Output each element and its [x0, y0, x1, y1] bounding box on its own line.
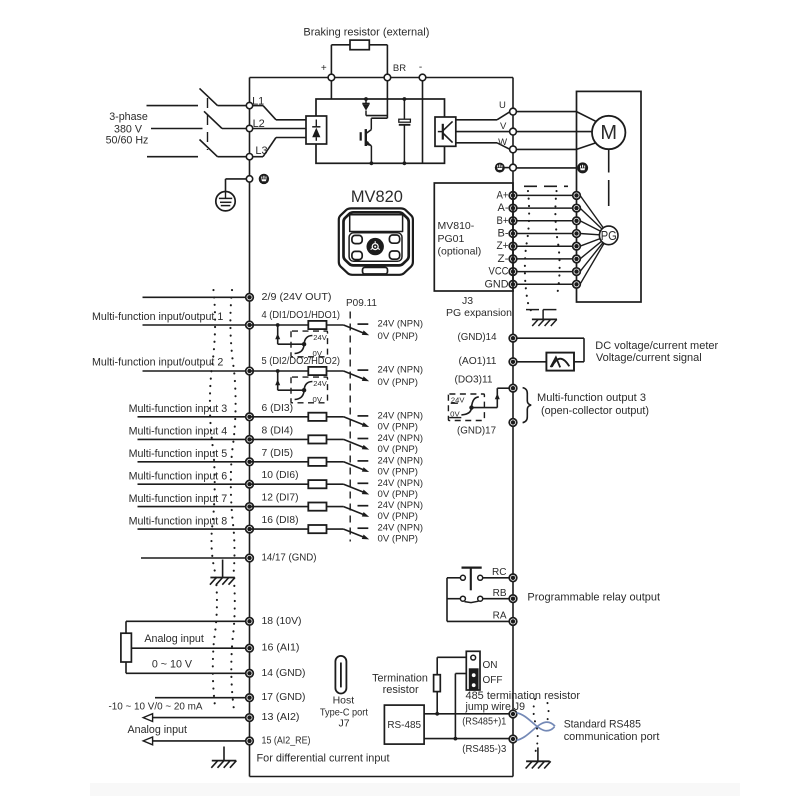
resistor braking (external)	[350, 40, 369, 50]
svg-text:14 (GND): 14 (GND)	[262, 668, 306, 679]
svg-text:PG: PG	[601, 229, 617, 243]
wire phase input at y=128.5	[151, 128, 203, 130]
motor enclosure box	[577, 91, 642, 302]
terminal 15 (AI2_RE)	[246, 737, 254, 745]
wire terminal to resistor DI6	[250, 483, 309, 485]
wire - node drop through box	[422, 81, 424, 164]
svg-text:0 ~ 10 V: 0 ~ 10 V	[152, 658, 193, 670]
node - terminal	[419, 74, 426, 81]
converter main box	[316, 99, 445, 163]
svg-text:0V (PNP): 0V (PNP)	[378, 421, 419, 431]
svg-text:W: W	[498, 137, 507, 148]
resistor 485 termination	[434, 675, 441, 692]
wire terminal to resistor DI1	[250, 324, 309, 326]
diode rectifier symbol	[312, 120, 320, 141]
wire L3 to rectifier	[253, 156, 263, 158]
terminal GND motor side	[573, 281, 581, 289]
wire 17 GND feed	[155, 697, 246, 699]
wire V output	[456, 131, 510, 133]
breaker blade	[200, 88, 218, 105]
wire bottom enclosure edge	[250, 776, 514, 778]
switch HDO1 internal 24V/0V selector	[275, 323, 327, 358]
terminal Z+ motor side	[573, 242, 581, 250]
terminal 5 (DI2/DO2/HDO2)	[246, 367, 254, 375]
svg-text:24V (NPN): 24V (NPN)	[378, 500, 424, 510]
diode braking chopper freewheel	[362, 99, 369, 116]
terminal 2/9 (24V OUT)	[246, 294, 254, 302]
resistor input DI1	[308, 321, 326, 329]
svg-text:Multi-function input 5: Multi-function input 5	[129, 448, 228, 460]
jumper J9 termination block	[466, 651, 480, 690]
wire PG signal Z-	[513, 258, 577, 260]
transistor IGBT inverter symbol	[438, 121, 453, 142]
wire resistor DI6 to switch	[327, 483, 344, 485]
switch DO3 open collector selector	[448, 388, 509, 420]
wire resistor DI2 to switch	[327, 370, 344, 372]
terminal B+ motor side	[573, 217, 581, 225]
svg-text:3-phase: 3-phase	[109, 111, 148, 123]
wire jumper top to resistor	[437, 656, 466, 658]
wire terminal to resistor DI4	[250, 438, 309, 440]
svg-text:V: V	[500, 121, 507, 132]
wire P09.11 dashed boundary	[349, 312, 351, 542]
wire terminal to resistor DI7	[250, 506, 309, 508]
svg-text:(GND)14: (GND)14	[458, 332, 497, 343]
wire blade to terminal	[218, 105, 247, 107]
svg-text:RB: RB	[493, 588, 507, 599]
wire jumper mid to RS485-	[455, 673, 466, 675]
switch DI2 blade to 0V	[344, 371, 367, 380]
module RS-485 box	[384, 705, 424, 744]
svg-text:Analog input: Analog input	[144, 633, 203, 645]
encoder PG circle	[599, 226, 618, 245]
terminal GND drive side	[509, 281, 517, 289]
resistor input DI3	[308, 413, 326, 421]
svg-text:For differential current input: For differential current input	[257, 753, 390, 765]
wire PG signal A+	[513, 194, 577, 196]
wire RS485- to terminal	[424, 738, 509, 740]
meter voltage/current	[546, 353, 574, 371]
wire PE stub	[505, 167, 510, 169]
terminal (RS485-)3	[509, 735, 517, 743]
svg-text:RS-485: RS-485	[387, 719, 421, 731]
svg-text:0V: 0V	[313, 395, 323, 404]
svg-text:MV810-: MV810-	[438, 220, 475, 232]
terminal B+ drive side	[509, 217, 517, 225]
wire Multi-function input/output 1 feed	[143, 324, 246, 326]
svg-text:24V (NPN): 24V (NPN)	[378, 478, 424, 488]
terminal RB	[509, 595, 517, 603]
terminal 13 (AI2)	[246, 714, 254, 722]
wire Multi-function input 4 feed	[138, 438, 246, 440]
wire Multi-function input 8 feed	[138, 528, 246, 530]
shield dotted columns PG cable	[525, 191, 534, 314]
wire meter loop	[517, 337, 584, 339]
svg-text:16 (DI8): 16 (DI8)	[262, 515, 299, 526]
wire BR drop to chopper	[386, 81, 388, 118]
terminal 17 (GND)	[246, 694, 254, 702]
terminal 16 (AI1)	[246, 644, 254, 652]
svg-text:0V (PNP): 0V (PNP)	[378, 331, 419, 341]
svg-text:Multi-function input 6: Multi-function input 6	[129, 471, 228, 483]
breaker blade	[200, 140, 218, 157]
svg-text:4 (DI1/DO1/HDO1): 4 (DI1/DO1/HDO1)	[262, 310, 341, 321]
svg-text:(open-collector output): (open-collector output)	[541, 405, 649, 417]
svg-text:17 (GND): 17 (GND)	[262, 692, 306, 703]
svg-text:-: -	[419, 62, 422, 73]
faint bottom watermark	[90, 783, 740, 796]
wire GND feed analog	[126, 672, 246, 674]
switch DI7 blade to 0V	[344, 507, 367, 516]
transistor IGBT braking chopper	[361, 118, 372, 163]
resistor input DI8	[308, 525, 326, 533]
switch DI1 blade to 0V	[344, 325, 367, 334]
wire AI1 feed	[131, 647, 245, 649]
protective earth disc at PE input	[259, 174, 269, 184]
wire AI2 feed with arrow	[152, 717, 246, 719]
node BR terminal	[384, 74, 391, 81]
switch DI6 24V contact dash	[358, 482, 369, 484]
terminal VCC drive side	[509, 268, 517, 276]
wire phase input at y=105.6	[147, 105, 199, 107]
ground below 14/17 GND	[222, 560, 224, 578]
svg-text:(AO1)11: (AO1)11	[459, 356, 497, 367]
wire Multi-function input/output 2 feed	[143, 370, 246, 372]
svg-text:ON: ON	[483, 660, 498, 671]
wire L1 to rectifier	[253, 105, 263, 107]
svg-text:5 (DI2/DO2/HDO2): 5 (DI2/DO2/HDO2)	[262, 356, 341, 367]
switch DI3 24V contact dash	[358, 415, 369, 417]
wire top DC bus (+ BR - rail)	[250, 77, 514, 79]
wire W inside motor box	[516, 148, 576, 150]
svg-text:13 (AI2): 13 (AI2)	[262, 712, 300, 723]
switch DI1 24V contact dash	[358, 323, 369, 325]
terminal Z+ drive side	[509, 242, 517, 250]
svg-text:6 (DI3): 6 (DI3)	[262, 403, 294, 414]
breaker blade	[204, 111, 222, 128]
terminal (GND)17	[509, 419, 517, 427]
svg-text:485 termination resistor: 485 termination resistor	[466, 690, 581, 702]
terminal U	[510, 108, 517, 115]
wire Multi-function input 5 feed	[138, 461, 246, 463]
wire PG signal B+	[513, 220, 577, 222]
terminal PE output	[510, 164, 517, 171]
wire Multi-function input 3 feed	[138, 416, 246, 418]
svg-text:24V (NPN): 24V (NPN)	[378, 433, 424, 443]
wire V inside motor box	[516, 131, 592, 133]
wire terminal to resistor DI8	[250, 528, 309, 530]
terminal Z- motor side	[573, 255, 581, 263]
svg-text:2/9 (24V OUT): 2/9 (24V OUT)	[262, 292, 332, 303]
terminal RA	[509, 618, 517, 626]
shield dotted columns inputs cable	[210, 290, 217, 710]
protective earth disc left of PE output	[495, 163, 505, 173]
switch DI4 blade to 0V	[344, 439, 367, 448]
svg-text:7 (DI5): 7 (DI5)	[262, 448, 294, 459]
svg-text:0V (PNP): 0V (PNP)	[378, 444, 419, 454]
svg-text:PG01: PG01	[438, 233, 465, 245]
terminal (GND)14	[509, 334, 517, 342]
svg-text:8 (DI4): 8 (DI4)	[262, 425, 294, 436]
switch DI7 24V contact dash	[358, 505, 369, 507]
svg-text:Standard RS485: Standard RS485	[564, 719, 641, 731]
wire resistor DI4 to switch	[327, 438, 344, 440]
svg-text:Multi-function input 3: Multi-function input 3	[129, 403, 228, 415]
wire Multi-function input 7 feed	[138, 506, 246, 508]
switch DI8 24V contact dash	[358, 527, 369, 529]
wire 24V OUT feed	[143, 296, 246, 298]
terminal A- drive side	[509, 204, 517, 212]
terminal 6 (DI3)	[246, 413, 254, 421]
wire + node drop into box	[330, 81, 332, 99]
terminal B- drive side	[509, 230, 517, 238]
node junction chopper emitter to bus	[370, 161, 374, 165]
node junction top of chopper diode	[364, 97, 368, 101]
wire resistor DI7 to switch	[327, 506, 344, 508]
svg-text:(RS485-)3: (RS485-)3	[462, 744, 506, 755]
svg-text:PG expansion: PG expansion	[446, 307, 512, 319]
resistor input DI7	[308, 503, 326, 511]
node junction capacitor top	[403, 97, 407, 101]
svg-text:24V: 24V	[313, 333, 327, 342]
svg-text:RA: RA	[493, 610, 507, 621]
wire terminal to resistor DI2	[250, 370, 309, 372]
wire left terminal rail	[249, 78, 251, 777]
svg-text:MV820: MV820	[351, 187, 403, 206]
svg-text:50/60 Hz: 50/60 Hz	[106, 135, 149, 147]
svg-text:(optional): (optional)	[438, 246, 482, 258]
svg-text:VCC: VCC	[489, 266, 509, 278]
svg-text:B+: B+	[497, 215, 509, 227]
terminal L2	[246, 125, 252, 131]
svg-text:(DO3)11: (DO3)11	[455, 375, 493, 386]
terminal L1	[246, 102, 252, 108]
ground below analog inputs	[223, 747, 225, 761]
svg-text:Braking resistor (external): Braking resistor (external)	[303, 27, 429, 39]
svg-text:Analog input: Analog input	[128, 724, 187, 736]
svg-text:16 (AI1): 16 (AI1)	[262, 643, 300, 654]
terminal B- motor side	[573, 230, 581, 238]
svg-text:(RS485+)1: (RS485+)1	[462, 716, 506, 727]
svg-text:Multi-function input/output 1: Multi-function input/output 1	[92, 311, 223, 323]
resistor input DI2	[308, 367, 326, 375]
wire resistor DI8 to switch	[327, 528, 344, 530]
svg-text:DC voltage/current meter: DC voltage/current meter	[595, 340, 718, 352]
terminal (AO1)11	[509, 358, 517, 366]
svg-text:24V (NPN): 24V (NPN)	[378, 410, 424, 420]
wire GND feed 14/17	[141, 557, 246, 559]
shield dashed line above PG cable	[524, 185, 568, 187]
node + terminal	[328, 74, 335, 81]
svg-text:+: +	[321, 63, 327, 74]
svg-text:0V (PNP): 0V (PNP)	[378, 489, 419, 499]
switch DI8 blade to 0V	[344, 529, 367, 538]
svg-text:L3: L3	[255, 145, 267, 157]
svg-text:0V (PNP): 0V (PNP)	[378, 466, 419, 476]
wire PG signal GND	[513, 283, 577, 285]
svg-text:15 (AI2_RE): 15 (AI2_RE)	[262, 735, 311, 746]
svg-text:B-: B-	[498, 228, 509, 240]
switch DI2 24V contact dash	[358, 369, 369, 371]
terminal V	[510, 128, 517, 135]
terminal 10 (DI6)	[246, 480, 254, 488]
wire AI2 RE feed with arrow	[152, 740, 246, 742]
svg-text:J7: J7	[338, 717, 349, 729]
svg-text:Programmable relay output: Programmable relay output	[527, 591, 660, 603]
wire RS485+ to terminal	[424, 713, 509, 715]
svg-text:24V (NPN): 24V (NPN)	[378, 523, 424, 533]
terminal 16 (DI8)	[246, 525, 254, 533]
svg-text:Multi-function input/output 2: Multi-function input/output 2	[92, 357, 223, 369]
svg-text:GND: GND	[485, 278, 509, 290]
wire AO1 to meter	[517, 361, 547, 363]
svg-text:24V (NPN): 24V (NPN)	[378, 319, 424, 329]
wire Multi-function input 6 feed	[138, 483, 246, 485]
terminal VCC motor side	[573, 268, 581, 276]
terminal A+ drive side	[509, 192, 517, 200]
svg-text:0V (PNP): 0V (PNP)	[378, 534, 419, 544]
svg-text:Termination: Termination	[372, 673, 428, 685]
wire U inside motor box	[516, 111, 576, 113]
svg-text:18 (10V): 18 (10V)	[262, 616, 302, 627]
expansion card MV810-PG01 box	[434, 183, 513, 291]
wire braking resistor loop left	[330, 45, 332, 75]
wire PG signal VCC	[513, 271, 577, 273]
resistor input DI5	[308, 458, 326, 466]
svg-text:communication port: communication port	[564, 731, 660, 743]
terminal PE input	[246, 176, 252, 182]
svg-text:-10 ~ 10 V/0 ~ 20 mA: -10 ~ 10 V/0 ~ 20 mA	[109, 701, 203, 712]
switch HDO2 internal 24V/0V selector	[275, 369, 327, 404]
svg-text:P09.11: P09.11	[346, 298, 377, 309]
switch DI6 blade to 0V	[344, 484, 367, 493]
svg-text:10 (DI6): 10 (DI6)	[262, 470, 299, 481]
node junction capacitor bottom	[403, 161, 407, 165]
wire resistor DI3 to switch	[327, 416, 344, 418]
protective earth disc at motor	[577, 162, 588, 173]
switch DI4 24V contact dash	[358, 438, 369, 440]
svg-text:Multi-function input 4: Multi-function input 4	[129, 426, 228, 438]
terminal 4 (DI1/DO1/HDO1)	[246, 321, 254, 329]
svg-text:24V (NPN): 24V (NPN)	[378, 365, 424, 375]
wire phase input at y=156.7	[147, 156, 198, 158]
breaker linkage dashed	[207, 98, 209, 150]
keypad MV820 graphic	[339, 208, 413, 274]
wire motor shaft to PG dashed	[608, 149, 610, 172]
svg-text:BR: BR	[393, 63, 406, 74]
svg-text:OFF: OFF	[483, 675, 503, 686]
wire PG fan lines to encoder	[580, 195, 609, 235]
rectifier module box	[306, 116, 327, 144]
svg-text:RC: RC	[492, 567, 506, 578]
wire PE output to motor	[516, 167, 576, 169]
wire PE to earth symbol	[226, 178, 247, 180]
wire PG signal B-	[513, 233, 577, 235]
terminal RC	[509, 574, 517, 582]
wire resistor bottom to RS485+	[436, 692, 438, 714]
svg-text:Z-: Z-	[498, 253, 509, 265]
wire L2 to rectifier	[253, 128, 306, 130]
svg-text:U: U	[499, 100, 506, 111]
wire resistor DI5 to switch	[327, 461, 344, 463]
potentiometer analog input	[121, 621, 131, 673]
shield ground of PG cable	[526, 310, 557, 326]
terminal 14 (GND)	[246, 670, 254, 678]
terminal 12 (DI7)	[246, 503, 254, 511]
svg-text:Multi-function input 7: Multi-function input 7	[129, 493, 228, 505]
wire W output	[456, 142, 497, 144]
svg-text:24V: 24V	[313, 379, 327, 388]
svg-text:0V (PNP): 0V (PNP)	[378, 377, 419, 387]
motor M circle	[592, 116, 625, 149]
resistor input DI6	[308, 480, 326, 488]
terminal A+ motor side	[573, 192, 581, 200]
svg-text:A-: A-	[498, 202, 509, 214]
terminal L3	[246, 154, 252, 160]
wire PG signal A-	[513, 207, 577, 209]
terminal 7 (DI5)	[246, 458, 254, 466]
svg-text:Z+: Z+	[497, 240, 509, 252]
svg-text:0V (PNP): 0V (PNP)	[378, 511, 419, 521]
switch DI5 blade to 0V	[344, 462, 367, 471]
svg-text:Multi-function output 3: Multi-function output 3	[537, 392, 646, 404]
wire blade to terminal	[222, 128, 246, 130]
svg-text:24V (NPN): 24V (NPN)	[378, 455, 424, 465]
inverter IGBT module box	[435, 117, 456, 146]
shield dotted column RS485	[534, 699, 538, 753]
switch DI5 24V contact dash	[358, 460, 369, 462]
brace multi-function output 3	[523, 388, 532, 423]
usb type-c port symbol	[335, 656, 346, 694]
svg-text:(GND)17: (GND)17	[457, 425, 496, 436]
wire resistor DI1 to switch	[327, 324, 344, 326]
wire right terminal rail	[512, 78, 514, 777]
twisted pair symbol blue	[517, 713, 556, 740]
terminal A- motor side	[573, 204, 581, 212]
earth ground circle symbol	[216, 192, 235, 211]
capacitor DC bus	[399, 99, 411, 163]
wire 10V feed	[126, 620, 246, 622]
terminal 8 (DI4)	[246, 436, 254, 444]
svg-text:14/17 (GND): 14/17 (GND)	[262, 553, 317, 564]
terminal Z- drive side	[509, 255, 517, 263]
wire PG signal Z+	[513, 245, 577, 247]
relay contacts	[447, 568, 509, 622]
switch DI3 blade to 0V	[344, 417, 367, 426]
svg-text:12 (DI7): 12 (DI7)	[262, 493, 299, 504]
terminal W	[510, 146, 517, 153]
wire terminal to resistor DI5	[250, 461, 309, 463]
svg-text:resistor: resistor	[383, 684, 419, 696]
svg-text:Host: Host	[333, 695, 355, 707]
wire terminal to resistor DI3	[250, 416, 309, 418]
terminal 18 (10V)	[246, 618, 254, 626]
svg-text:Voltage/current signal: Voltage/current signal	[596, 352, 702, 364]
terminal (DO3)11	[509, 384, 517, 392]
terminal 14/17 (GND)	[246, 554, 254, 562]
svg-text:0V: 0V	[313, 349, 323, 358]
wire U output	[456, 119, 497, 121]
wire blade to terminal	[218, 156, 247, 158]
resistor input DI4	[308, 435, 326, 443]
terminal (RS485+)1	[509, 710, 517, 718]
svg-text:J3: J3	[462, 295, 473, 307]
ground below twisted pair	[537, 747, 539, 761]
wire braking resistor loop right	[369, 44, 387, 46]
svg-text:M: M	[600, 122, 617, 144]
svg-text:A+: A+	[497, 189, 509, 201]
